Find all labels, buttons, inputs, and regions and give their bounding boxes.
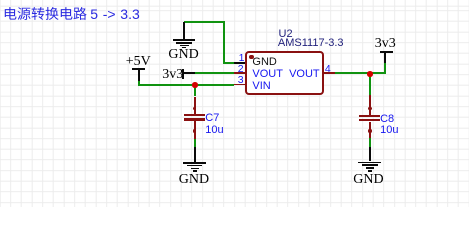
pin number 4	[325, 64, 331, 75]
ground symbol bottom-right	[369, 147, 371, 162]
wire: +5V down	[138, 81, 140, 84]
value label AMS1117-3.3	[278, 38, 344, 49]
svg-text:5: 5	[90, 6, 98, 22]
wire: C8 to GND	[369, 138, 371, 147]
pin1 dot	[249, 55, 254, 60]
svg-text:3.3: 3.3	[120, 6, 140, 22]
wire: C7 to GND	[194, 139, 196, 147]
pin name VOUT (pin2)	[252, 69, 283, 80]
pin 4 stub	[324, 72, 336, 74]
regulator U2 designator	[279, 29, 293, 40]
junction node (right)	[367, 71, 373, 77]
label GND (top)	[168, 48, 198, 62]
power port 3v3 (left)	[162, 68, 183, 82]
wire: pin4 to junction/3v3	[335, 72, 386, 74]
label GND (bottom-left)	[179, 173, 209, 187]
value label 10u (C8)	[380, 125, 398, 136]
pin 2 stub	[234, 72, 246, 74]
pin name VIN	[252, 81, 270, 92]
wire: up to 3v3 port	[384, 63, 386, 74]
power port 3v3 (right)	[375, 37, 396, 51]
pin name GND	[252, 57, 276, 68]
wire: top GND net horizontal	[184, 21, 225, 23]
label GND (bottom-right)	[353, 173, 383, 187]
label C7	[205, 113, 219, 124]
ground symbol top (near U2)	[183, 22, 185, 39]
wire: top GND net vertical	[223, 21, 225, 64]
junction node (left)	[192, 82, 198, 88]
title 电源转换电路 5 -> 3.3	[3, 4, 163, 23]
wire: into pin1	[223, 62, 235, 64]
wire: 3v3 to pin2	[195, 72, 234, 74]
regulator U2 body	[245, 51, 325, 96]
pin 3 stub	[234, 84, 246, 86]
value label 10u (C7)	[205, 125, 223, 136]
wire: junction down to C7	[194, 85, 196, 97]
wire: +5V row to pin3	[138, 84, 234, 86]
pin name VOUT (pin4)	[289, 69, 320, 80]
label C8	[380, 114, 394, 125]
capacitor C8	[368, 107, 371, 110]
capacitor C7	[193, 107, 196, 110]
pin 1 stub (black)	[234, 62, 246, 64]
power port +5V	[126, 55, 151, 69]
svg-text:->: ->	[102, 6, 115, 22]
pin number 1	[239, 53, 245, 64]
pin number 2	[238, 64, 244, 75]
pin number 3	[238, 75, 244, 86]
wire: junction down to C8	[369, 74, 371, 95]
ground symbol bottom-left	[194, 147, 196, 162]
